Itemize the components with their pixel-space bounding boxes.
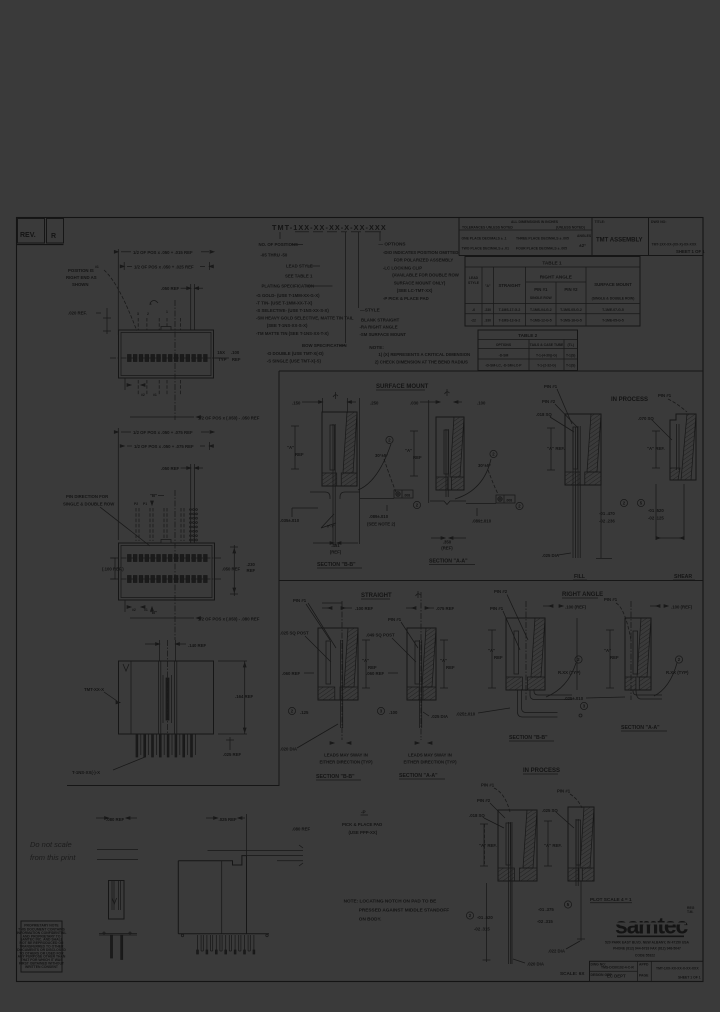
dim row1 <box>117 428 119 540</box>
svg-text:1/2 OF POS x (.050) - .050 REF: 1/2 OF POS x (.050) - .050 REF <box>198 416 260 421</box>
balloon note 2 <box>413 501 420 508</box>
svg-text:PIN DIRECTION FOR: PIN DIRECTION FOR <box>66 494 109 499</box>
contact pin <box>419 640 421 728</box>
svg-text:-D-SM: -D-SM <box>499 354 509 358</box>
svg-text:.025 DIA: .025 DIA <box>431 714 448 719</box>
svg-text:PAGE: PAGE <box>639 974 649 978</box>
balloon note 2 <box>516 502 523 509</box>
sheet frame <box>17 218 704 982</box>
hatched base right <box>585 472 601 485</box>
centerline symbol <box>417 591 419 598</box>
ipb left pin long <box>511 822 513 964</box>
pcb lines <box>97 849 138 851</box>
svg-text:1/2 OF POS x .050 + .075 REF: 1/2 OF POS x .050 + .075 REF <box>134 444 194 449</box>
below body dims <box>124 378 126 390</box>
svg-text:STRAIGHT: STRAIGHT <box>499 283 521 288</box>
svg-text:RIGHT ANGLE: RIGHT ANGLE <box>562 592 603 598</box>
hatched molded wall <box>343 412 357 473</box>
svg-text:(SEE LC-TMT-XX): (SEE LC-TMT-XX) <box>397 288 433 293</box>
svg-text:1) (X) REPRESENTS A CRITICAL D: 1) (X) REPRESENTS A CRITICAL DIMENSION <box>378 352 470 357</box>
svg-text:.100 (REF): .100 (REF) <box>565 605 587 610</box>
svg-text:LEAD: LEAD <box>469 276 479 280</box>
svg-text:PIN #1: PIN #1 <box>481 783 495 788</box>
svg-text:R.XX (TYP): R.XX (TYP) <box>558 670 581 675</box>
hatched molded wall <box>523 810 537 868</box>
svg-text:PIN #1: PIN #1 <box>658 393 672 398</box>
svg-text:.018 SQ: .018 SQ <box>536 412 552 417</box>
dim half of pos row1 <box>117 249 119 335</box>
svg-text:#2: #2 <box>132 608 136 612</box>
shear body <box>670 414 696 480</box>
svg-text:(.100 REF.): (.100 REF.) <box>102 567 124 572</box>
st a-a a-ref <box>443 640 445 688</box>
svg-text:SHEET 1 OF 1: SHEET 1 OF 1 <box>678 976 701 980</box>
ra base plate <box>178 933 269 935</box>
svg-text:-02 .315: -02 .315 <box>537 919 553 924</box>
svg-text:DWG NO:: DWG NO: <box>651 220 666 224</box>
hatched molded wall <box>531 618 545 677</box>
svg-text:-P PICK & PLACE PAD: -P PICK & PLACE PAD <box>383 296 429 301</box>
inner contact slot <box>444 430 449 474</box>
svg-text:EITHER DIRECTION (TYP): EITHER DIRECTION (TYP) <box>404 760 458 765</box>
svg-text:RIGHT END AS: RIGHT END AS <box>66 275 97 280</box>
body outline top view <box>119 330 214 378</box>
double row pin dots <box>190 509 192 511</box>
hatched base left <box>565 472 580 485</box>
hatched base right <box>423 687 436 700</box>
svg-text:.020 REF.: .020 REF. <box>68 311 87 316</box>
svg-text:CODE 55322: CODE 55322 <box>635 954 655 958</box>
svg-text:TWO PLACE DECIMALS ± .01: TWO PLACE DECIMALS ± .01 <box>462 247 510 251</box>
pn leader lines <box>279 232 281 239</box>
svg-text:.140 REF: .140 REF <box>188 643 207 648</box>
proprietary note box <box>21 921 62 972</box>
connector body cross-section outline <box>436 417 464 490</box>
dim .140 ref <box>159 640 161 661</box>
svg-text:.070 SQ: .070 SQ <box>638 416 654 421</box>
connector body cross-section outline <box>625 618 651 690</box>
svg-text:-T TIN- (USE T-1MM-XX-T-X): -T TIN- (USE T-1MM-XX-T-X) <box>256 300 313 305</box>
centerlines <box>110 357 222 359</box>
svg-text:.020 DIA: .020 DIA <box>280 747 297 752</box>
svg-text:.100 (REF): .100 (REF) <box>671 605 693 610</box>
svg-text:NOTE: LOCATING NOTCH ON PAD T: NOTE: LOCATING NOTCH ON PAD TO BE <box>344 899 437 904</box>
svg-text:.451: .451 <box>331 543 340 548</box>
svg-text:2: 2 <box>147 312 149 316</box>
svg-text:T-1MS-12-G-2: T-1MS-12-G-2 <box>499 319 521 323</box>
svg-text:.230: .230 <box>484 308 491 312</box>
sm b-b feet pads <box>310 492 330 499</box>
inner contact slot <box>633 631 638 674</box>
svg-text:T-1MS-17-G-2: T-1MS-17-G-2 <box>499 308 521 312</box>
svg-text:a: a <box>150 302 152 306</box>
svg-text:R: R <box>51 233 56 240</box>
sm a-a bottom dim <box>431 537 442 539</box>
svg-text:-22: -22 <box>471 319 476 323</box>
svg-text:T-1ME-07-G-5: T-1ME-07-G-5 <box>602 308 624 312</box>
balloon note 5 <box>637 499 644 506</box>
dim half of pos row2 <box>123 262 125 270</box>
svg-text:LEADS MAY SWAY IN: LEADS MAY SWAY IN <box>324 753 368 758</box>
svg-text:"A" REF.: "A" REF. <box>647 446 665 451</box>
svg-text:T-1MS-16-G-5: T-1MS-16-G-5 <box>560 319 582 323</box>
svg-text:(REF): (REF) <box>330 550 342 555</box>
balloon note 3 <box>377 707 384 714</box>
svg-text:.089±.010: .089±.010 <box>369 514 389 519</box>
svg-text:T-1NS-XX(-)-X: T-1NS-XX(-)-X <box>72 770 100 775</box>
svg-text:.080 REF: .080 REF <box>106 817 125 822</box>
svg-text:P2: P2 <box>134 502 138 506</box>
hatched base left <box>498 868 514 881</box>
svg-text:BLANK STRAIGHT: BLANK STRAIGHT <box>361 317 400 322</box>
svg-text:.050 REF: .050 REF <box>161 466 180 471</box>
connector body cross-section outline <box>565 414 601 485</box>
svg-text:.125: .125 <box>300 710 309 715</box>
svg-text:-D-SM-LC, -D-SM-LC-P: -D-SM-LC, -D-SM-LC-P <box>485 364 522 368</box>
svg-text:SECTION "A-A": SECTION "A-A" <box>429 559 468 565</box>
svg-text:PLOT SCALE 4 = 1: PLOT SCALE 4 = 1 <box>590 897 632 902</box>
svg-text:TMS-DC60102-4-C-R: TMS-DC60102-4-C-R <box>601 966 634 970</box>
svg-text:— OPTIONS: — OPTIONS <box>378 242 405 247</box>
svg-text:"A" REF.: "A" REF. <box>547 446 565 451</box>
svg-text:OPTIONS: OPTIONS <box>496 343 512 347</box>
connector body cross-section outline <box>568 807 594 881</box>
title block <box>458 218 460 256</box>
svg-text:-01 .375: -01 .375 <box>538 907 554 912</box>
svg-text:"A": "A" <box>440 658 447 663</box>
svg-text:IN PROCESS: IN PROCESS <box>611 397 648 403</box>
svg-text:SHOWN: SHOWN <box>72 282 88 287</box>
connector body cross-section outline <box>407 628 436 700</box>
svg-text:TMT-1XX-XX-(XX-X)-XX-XXX: TMT-1XX-XX-(XX-X)-XX-XXX <box>652 243 698 247</box>
shear bottom dim <box>655 484 657 540</box>
svg-text:from this print: from this print <box>30 853 76 862</box>
small view dim .080 <box>96 817 104 819</box>
dim right .164 <box>244 661 246 734</box>
svg-text:.008: .008 <box>404 493 411 497</box>
center channel <box>158 661 160 734</box>
svg-text:-RA RIGHT ANGLE: -RA RIGHT ANGLE <box>360 325 398 330</box>
svg-text:#1: #1 <box>153 393 157 397</box>
contact pin <box>575 819 577 886</box>
ipb a-ref <box>483 824 485 866</box>
ipb right a-ref <box>547 821 549 866</box>
svg-text:PIN #1: PIN #1 <box>293 598 307 603</box>
centerline symbol <box>446 389 448 396</box>
svg-text:TMT-1XX-XX-XX-X-XX-XXX: TMT-1XX-XX-XX-X-XX-XXX <box>656 967 699 971</box>
svg-text:—STYLE: —STYLE <box>360 307 380 312</box>
connector body cross-section outline <box>322 412 357 486</box>
svg-text:SECTION "B-B": SECTION "B-B" <box>317 562 356 568</box>
svg-text:(SINGLE & DOUBLE ROW): (SINGLE & DOUBLE ROW) <box>592 297 635 301</box>
svg-text:POSITION IS: POSITION IS <box>68 268 94 273</box>
svg-text:ANGLES: ANGLES <box>577 234 592 238</box>
svg-text:ALL DIMENSIONS IN INCHES: ALL DIMENSIONS IN INCHES <box>511 220 559 224</box>
hatched base right <box>451 477 464 490</box>
hatched base right <box>639 677 651 690</box>
svg-text:APPD: APPD <box>639 963 649 967</box>
svg-text:1/2 OF POS x .050 + .025 REF: 1/2 OF POS x .050 + .025 REF <box>134 264 194 269</box>
svg-text:REV.: REV. <box>20 232 36 239</box>
svg-text:T-1-(4-30)(-G): T-1-(4-30)(-G) <box>536 354 557 358</box>
svg-text:"A": "A" <box>488 648 495 653</box>
ra body side <box>178 856 246 865</box>
svg-text:"A": "A" <box>287 445 294 450</box>
hatched molded wall <box>637 618 651 677</box>
table 2 <box>478 330 578 371</box>
svg-text:SECTION "A-A": SECTION "A-A" <box>621 725 660 731</box>
dim lower half pos <box>130 416 194 418</box>
svg-text:1/2 OF POS x .050 + .015 REF: 1/2 OF POS x .050 + .015 REF <box>133 250 193 255</box>
svg-text:REF: REF <box>446 665 455 670</box>
svg-text:PIN #2: PIN #2 <box>477 798 491 803</box>
balloon note 2 <box>490 450 497 457</box>
svg-text:T-1MS-04-G-2: T-1MS-04-G-2 <box>530 308 552 312</box>
svg-text:LEADS MAY SWAY IN: LEADS MAY SWAY IN <box>408 753 452 758</box>
svg-text:.060 REF: .060 REF <box>282 671 301 676</box>
dim row2 <box>120 445 124 448</box>
svg-text:.025 SQ POST: .025 SQ POST <box>280 631 309 636</box>
connector body cross-section outline <box>506 618 545 690</box>
svg-text:ONE PLACE DECIMALS ± .1: ONE PLACE DECIMALS ± .1 <box>462 237 507 241</box>
pin extension dashed lines <box>137 318 139 330</box>
svg-text:EC DEPT: EC DEPT <box>607 974 626 979</box>
svg-text:T-1(S): T-1(S) <box>566 364 575 368</box>
hatched base right <box>582 868 594 881</box>
svg-text:PIN #1: PIN #1 <box>490 606 504 611</box>
ra b-b top dim <box>549 605 553 608</box>
pin row 2 <box>128 576 132 583</box>
svg-text:-05 THRU -50: -05 THRU -50 <box>261 253 288 258</box>
svg-text:.025 REF: .025 REF <box>223 752 242 757</box>
pin row blobs <box>128 355 132 362</box>
svg-text:PIN #1: PIN #1 <box>544 384 558 389</box>
svg-text:PIN #1: PIN #1 <box>534 287 548 292</box>
svg-text:PIN #1: PIN #1 <box>557 789 571 794</box>
svg-text:PIN #2: PIN #2 <box>564 287 578 292</box>
dim lower half pos E <box>130 617 194 619</box>
svg-text:NOTE:: NOTE: <box>369 345 384 350</box>
svg-text:"A": "A" <box>604 648 611 653</box>
hatched base left <box>407 687 419 700</box>
svg-text:.025±.010: .025±.010 <box>564 696 584 701</box>
sm a-a a-ref <box>413 431 415 476</box>
svg-text:(REF): (REF) <box>441 546 453 551</box>
svg-text:2) CHECK DIMENSION AT THE BEND: 2) CHECK DIMENSION AT THE BEND RADIUS <box>375 360 468 365</box>
svg-text:TABLE 2: TABLE 2 <box>518 333 538 338</box>
sm b-b a-ref <box>294 426 296 469</box>
svg-text:-01 .470: -01 .470 <box>599 511 615 516</box>
svg-text:SCALE: 6X: SCALE: 6X <box>560 971 585 976</box>
revision block <box>18 219 45 244</box>
svg-text:TMT ASSEMBLY: TMT ASSEMBLY <box>596 238 643 244</box>
svg-text:REF: REF <box>295 452 304 457</box>
svg-text:#1: #1 <box>95 265 99 269</box>
hatched molded wall <box>344 628 358 687</box>
svg-text:(AVAILABLE FOR DOUBLE ROW: (AVAILABLE FOR DOUBLE ROW <box>392 273 460 278</box>
hatched base left <box>318 687 335 700</box>
dim .025 ref leg <box>229 737 231 750</box>
svg-text:-6: -6 <box>472 308 475 312</box>
inner contact slot <box>415 641 420 684</box>
svg-text:EITHER DIRECTION (TYP): EITHER DIRECTION (TYP) <box>320 760 374 765</box>
tail pins <box>111 935 113 958</box>
sm b-b bottom dim <box>313 542 330 544</box>
hatched base right <box>340 687 358 700</box>
svg-text:1/2 OF POS x .050 + .075 REF: 1/2 OF POS x .050 + .075 REF <box>133 430 193 435</box>
svg-text:STYLE: STYLE <box>468 281 480 285</box>
hatched base right <box>527 677 545 690</box>
hatched molded wall <box>422 628 436 687</box>
svg-text:.250: .250 <box>370 401 379 406</box>
svg-text:.030: .030 <box>410 401 419 406</box>
svg-text:SURFACE MOUNT: SURFACE MOUNT <box>376 384 429 390</box>
svg-text:.049 SQ POST: .049 SQ POST <box>366 633 395 638</box>
svg-text:-TM MATTE TIN (SEE T-1NS-XX-T-: -TM MATTE TIN (SEE T-1NS-XX-T-X) <box>256 331 329 336</box>
svg-text:.018 SQ: .018 SQ <box>469 813 485 818</box>
svg-text:-SM SURFACE MOUNT: -SM SURFACE MOUNT <box>360 332 407 337</box>
hatched molded wall <box>587 414 601 472</box>
svg-text:.050 REF: .050 REF <box>161 286 180 291</box>
hatched base right <box>519 868 537 881</box>
hatched base left <box>322 473 337 486</box>
svg-text:REF: REF <box>247 568 256 573</box>
ra b-b a-ref <box>491 630 493 688</box>
svg-text:.050 REF: .050 REF <box>222 567 241 572</box>
feature control frame .008 <box>496 495 515 503</box>
svg-text:REF: REF <box>610 655 619 660</box>
inner contact slot <box>576 820 581 865</box>
svg-text:.350: .350 <box>443 540 452 545</box>
svg-text:PIN #1: PIN #1 <box>388 617 402 622</box>
balloon note 2 <box>675 656 682 663</box>
inner contact slot <box>326 641 331 684</box>
svg-text:SECTION "B-B": SECTION "B-B" <box>316 774 355 780</box>
ipb left dim bracket <box>486 883 488 962</box>
svg-text:.100: .100 <box>389 710 398 715</box>
svg-text:.025 SQ: .025 SQ <box>542 808 558 813</box>
fill pin long <box>572 427 574 558</box>
svg-text:.100: .100 <box>231 350 240 355</box>
svg-text:TMT-1XX-XX-XX-X-XX-XXX: TMT-1XX-XX-XX-X-XX-XXX <box>272 223 387 232</box>
svg-text:TABLE 1: TABLE 1 <box>542 261 562 266</box>
svg-text:FOR POLARIZED ASSEMBLY: FOR POLARIZED ASSEMBLY <box>394 257 454 262</box>
svg-text:R.XX (TYP): R.XX (TYP) <box>666 670 689 675</box>
st b-b top dim <box>322 602 342 604</box>
panel borders <box>279 370 703 372</box>
inner contact slot <box>330 425 335 470</box>
svg-text:"A" REF.: "A" REF. <box>479 843 497 848</box>
svg-text:-LC LOCKING CLIP: -LC LOCKING CLIP <box>383 265 422 270</box>
contact pin <box>577 426 579 558</box>
connector body cross-section outline <box>498 810 537 881</box>
svg-text:Do not scale: Do not scale <box>30 840 72 849</box>
balloon note 2 <box>575 656 582 663</box>
svg-text:T-1MS-05-G-2: T-1MS-05-G-2 <box>560 308 582 312</box>
svg-text:15X: 15X <box>217 350 225 355</box>
svg-text:TOLERANCES UNLESS NOTED: TOLERANCES UNLESS NOTED <box>462 226 513 230</box>
hatched base left <box>506 677 522 690</box>
svg-text:"A": "A" <box>362 658 369 663</box>
svg-text:#2: #2 <box>141 393 145 397</box>
svg-text:PIN #1: PIN #1 <box>604 597 618 602</box>
fill bottom <box>600 485 602 558</box>
ra pcb lines <box>208 849 304 851</box>
svg-text:-G GOLD- (USE T-1MM-XX-G-X): -G GOLD- (USE T-1MM-XX-G-X) <box>256 293 320 298</box>
contact pin <box>340 640 342 728</box>
polarization notch <box>161 327 171 331</box>
svg-text:T.M.: T.M. <box>687 910 693 914</box>
svg-text:FILL: FILL <box>574 574 586 580</box>
svg-text:.025 DIA: .025 DIA <box>542 553 559 558</box>
svg-text:.150: .150 <box>292 401 301 406</box>
svg-text:-01 .520: -01 .520 <box>477 915 493 920</box>
centerline symbol <box>335 392 337 399</box>
svg-text:SECTION "B-B": SECTION "B-B" <box>509 735 548 741</box>
svg-text:.230: .230 <box>247 562 256 567</box>
svg-text:"B": "B" <box>150 493 157 498</box>
svg-text:520 PARK EAST BLVD. NEW ALBANY: 520 PARK EAST BLVD. NEW ALBANY, IN 47150… <box>605 941 690 945</box>
svg-text:SHEET 1 OF 1: SHEET 1 OF 1 <box>676 249 705 254</box>
svg-text:"A": "A" <box>485 284 491 288</box>
svg-text:.022 DIA: .022 DIA <box>548 949 565 954</box>
svg-text:.060 REF: .060 REF <box>366 671 385 676</box>
svg-text:-02 .315: -02 .315 <box>474 927 490 932</box>
svg-text:.075 REF: .075 REF <box>436 606 455 611</box>
svg-text:-S SINGLE (USE TMT-X(-S): -S SINGLE (USE TMT-X(-S) <box>267 358 322 363</box>
pin row 1 <box>128 555 132 562</box>
svg-text:.164 REF: .164 REF <box>235 694 254 699</box>
svg-text:PRESSED AGAINST MIDDLE STANDOF: PRESSED AGAINST MIDDLE STANDOFF <box>359 908 450 913</box>
svg-text:(TL): (TL) <box>567 343 573 347</box>
svg-text:TAILS & CASE TUBE: TAILS & CASE TUBE <box>530 343 564 347</box>
svg-text:TMT-XX-X: TMT-XX-X <box>84 687 104 692</box>
hatched base left <box>568 868 579 881</box>
balloon note 2 <box>386 436 393 443</box>
svg-text:.025±.010: .025±.010 <box>456 712 476 717</box>
sm a-a foot pad <box>430 501 466 505</box>
svg-text:.008: .008 <box>506 498 513 502</box>
svg-text:TITLE:: TITLE: <box>595 220 606 224</box>
svg-text:ON BODY.: ON BODY. <box>359 917 382 922</box>
body outline double row <box>119 543 215 600</box>
svg-text:REF: REF <box>413 455 422 460</box>
balloon note 3 <box>580 702 587 709</box>
svg-text:-D DOUBLE (USE TMT-X(-D): -D DOUBLE (USE TMT-X(-D) <box>267 351 324 356</box>
svg-text:.025 REF: .025 REF <box>219 817 238 822</box>
svg-text:FOUR PLACE DECIMALS ± .005: FOUR PLACE DECIMALS ± .005 <box>516 247 567 251</box>
hatched base right <box>341 473 357 486</box>
svg-text:1/2 OF POS x (.050) - .080 REF: 1/2 OF POS x (.050) - .080 REF <box>198 617 260 622</box>
st b-b a-ref right <box>365 640 367 688</box>
svg-text:STRAIGHT: STRAIGHT <box>361 593 392 599</box>
svg-text:-P: -P <box>361 810 366 815</box>
contact pin <box>332 424 334 545</box>
svg-text:±2°: ±2° <box>579 243 586 248</box>
feature control frame .008 <box>394 490 413 498</box>
svg-text:REF: REF <box>494 655 503 660</box>
svg-text:PIN #2: PIN #2 <box>494 589 508 594</box>
body front <box>119 661 214 734</box>
table 1 <box>465 257 640 327</box>
svg-text:"A": "A" <box>405 448 412 453</box>
centerlines double row <box>110 557 222 559</box>
contact pin <box>445 429 447 497</box>
svg-text:PIN #2: PIN #2 <box>542 399 556 404</box>
svg-text:(USE PPP-XX): (USE PPP-XX) <box>349 830 378 835</box>
svg-text:SECTION "A-A": SECTION "A-A" <box>399 773 438 779</box>
svg-text:0°-7°: 0°-7° <box>327 525 335 529</box>
